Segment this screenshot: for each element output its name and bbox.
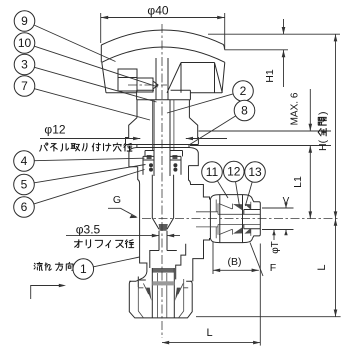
packing gland left 4 5 6	[143, 151, 154, 175]
svg-text:8: 8	[241, 104, 248, 118]
balloon 5	[14, 174, 35, 195]
svg-text:5: 5	[21, 178, 28, 192]
ext body bottom right	[196, 316, 341, 318]
stem plug	[152, 175, 173, 230]
balloon 4	[14, 151, 35, 172]
outlet nut cone lines	[216, 200, 251, 239]
leader 12	[236, 182, 240, 207]
dim phiT	[273, 230, 275, 240]
inlet ferrule left 11	[146, 288, 152, 301]
handle cap top arc	[101, 30, 224, 50]
body right upper wall	[189, 166, 210, 200]
svg-text:H(: H(	[317, 139, 329, 151]
inlet bore steps	[138, 244, 185, 287]
flow arrow	[31, 286, 61, 300]
packing cap right	[172, 155, 177, 159]
H zenkai text	[317, 112, 329, 152]
svg-text:12: 12	[227, 165, 241, 179]
svg-text:H1: H1	[264, 69, 276, 83]
balloon 11	[202, 162, 223, 183]
panel text	[40, 143, 132, 151]
svg-text:4: 4	[21, 154, 28, 168]
stem through bonnet	[154, 100, 170, 176]
balloon 1	[73, 259, 94, 280]
dim phi40 line	[101, 17, 225, 19]
G leader	[108, 208, 137, 217]
svg-text:10: 10	[18, 36, 32, 50]
body flange	[129, 148, 198, 167]
inlet tube end dark	[152, 268, 174, 273]
dim L right	[335, 219, 337, 317]
body right lower wall	[193, 238, 210, 281]
handle hex facet	[167, 63, 222, 93]
handle skirt right	[222, 62, 225, 93]
leader 1	[94, 257, 140, 267]
centerline set screw axis	[128, 84, 167, 86]
ext L bottom right	[259, 244, 261, 346]
leader 2	[167, 94, 233, 113]
dim L bottom	[162, 342, 260, 344]
leader 3	[34, 67, 156, 102]
balloon 6	[14, 197, 35, 218]
inlet nut top face	[129, 280, 192, 282]
leader 10	[34, 46, 158, 87]
svg-text:φ12: φ12	[44, 123, 65, 137]
centerline vertical stem axis	[161, 24, 163, 338]
balloon 2	[233, 81, 254, 102]
svg-text:13: 13	[248, 165, 262, 179]
centerline outlet axis	[142, 218, 340, 220]
outlet nut collar	[253, 200, 261, 239]
outlet nut facets	[220, 195, 243, 243]
dim MAX6	[309, 89, 311, 219]
outlet tube	[244, 210, 260, 229]
F leader	[250, 243, 263, 277]
orifice text	[74, 240, 133, 248]
dim phi40 ext	[101, 13, 225, 50]
handle cap left edge	[100, 45, 102, 62]
stem upper	[156, 58, 168, 100]
o-rings right	[173, 163, 177, 167]
svg-text:φT: φT	[270, 241, 281, 254]
svg-text:1: 1	[80, 262, 87, 276]
svg-text:): )	[317, 112, 329, 116]
packing cap left	[147, 155, 152, 159]
svg-text:φ40: φ40	[147, 4, 168, 18]
inlet tube	[152, 268, 174, 318]
outlet bore lines	[218, 214, 260, 224]
svg-text:6: 6	[21, 200, 28, 214]
leader 7	[34, 89, 150, 120]
svg-text:(B): (B)	[228, 256, 242, 268]
dim H zenkai line	[335, 34, 337, 218]
packing gland right	[170, 151, 183, 175]
handle hub	[137, 90, 191, 99]
svg-text:7: 7	[21, 79, 28, 93]
leader 9	[34, 25, 116, 62]
handle bottom rim	[106, 92, 222, 94]
outlet body bore	[196, 203, 218, 234]
ext max6 bottom	[190, 145, 331, 147]
o-rings left	[149, 163, 153, 167]
bonnet neck	[137, 100, 189, 118]
outlet nut hex	[210, 195, 252, 243]
panel nut 8	[126, 118, 199, 148]
set screw 10	[137, 78, 158, 92]
svg-text:MAX. 6: MAX. 6	[290, 92, 301, 125]
balloon 12	[224, 161, 245, 182]
svg-text:L: L	[206, 327, 212, 339]
balloon 8	[234, 100, 255, 121]
balloon 13	[245, 162, 266, 183]
leader 8	[189, 116, 236, 145]
balloon 3	[14, 54, 35, 75]
svg-text:L1: L1	[292, 176, 304, 188]
inlet tube band	[152, 281, 174, 285]
body left wall	[136, 167, 147, 281]
dim H1	[225, 19, 289, 87]
svg-text:G: G	[113, 194, 121, 206]
svg-text:9: 9	[21, 14, 28, 28]
svg-text:2: 2	[240, 84, 247, 98]
bonnet bore	[153, 100, 174, 151]
leader 6	[34, 170, 145, 204]
svg-text:11: 11	[206, 165, 219, 179]
inlet ferrule right	[175, 288, 181, 301]
outlet ferrule bottom	[233, 227, 242, 233]
leader 4	[34, 158, 144, 161]
ext max6 top	[199, 130, 332, 132]
outlet ferrule top 12	[233, 204, 242, 210]
svg-text:3: 3	[21, 58, 28, 72]
inlet nut bore	[138, 279, 183, 318]
inlet tube id	[158, 273, 167, 318]
leader 13	[245, 182, 252, 206]
ext handle top	[208, 33, 340, 35]
orifice walls	[159, 231, 167, 251]
flow direction text	[34, 262, 73, 270]
svg-text:φ3.5: φ3.5	[76, 223, 101, 237]
inlet cone lines	[138, 283, 188, 294]
handle skirt left	[102, 62, 106, 93]
handle cap inner arc	[102, 47, 225, 62]
inlet nut 13	[129, 281, 192, 318]
svg-text:F: F	[270, 262, 276, 274]
leader 11	[217, 181, 228, 198]
leader 5	[34, 165, 145, 183]
balloon 10	[14, 33, 35, 54]
balloon 7	[14, 76, 35, 97]
svg-text:L: L	[316, 264, 328, 270]
balloon 9	[14, 11, 35, 32]
needle seat dark	[159, 224, 168, 231]
handle set screw gland	[118, 69, 137, 91]
